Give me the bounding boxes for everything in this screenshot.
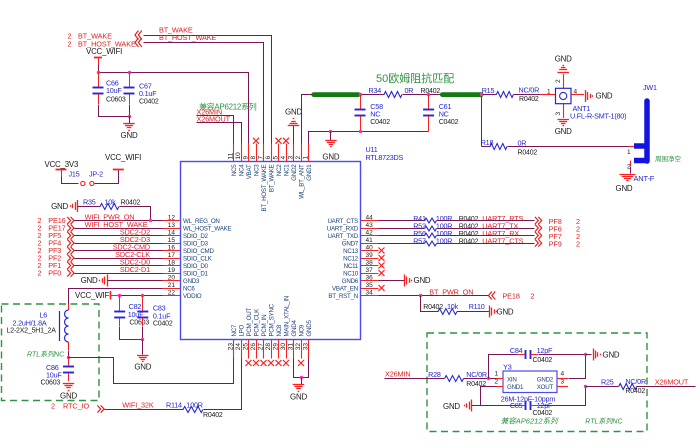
svg-text:WIFI_32K: WIFI_32K — [122, 401, 154, 410]
svg-text:4: 4 — [280, 156, 287, 160]
svg-text:UART7_CTS: UART7_CTS — [482, 237, 523, 246]
wire R25 to X26MOUT — [637, 386, 696, 388]
svg-text:GND: GND — [60, 392, 77, 401]
junction GND rail tap — [329, 130, 332, 133]
svg-text:C0402: C0402 — [153, 320, 173, 327]
pin 1 JW1 — [629, 146, 635, 148]
svg-text:C0402: C0402 — [439, 119, 459, 126]
pin 6 BT_WAKE (top) — [271, 144, 273, 162]
svg-text:PCM_OUT: PCM_OUT — [246, 308, 253, 337]
svg-text:12: 12 — [168, 214, 176, 221]
svg-text:100R: 100R — [436, 237, 452, 246]
pin 13 WL_HOST_WAKE (left) — [163, 228, 181, 230]
wire NC6 to L6 — [69, 289, 163, 305]
svg-text:30: 30 — [280, 343, 287, 351]
svg-text:R0402: R0402 — [421, 88, 441, 95]
wire X26MIN stub to pin 11 — [197, 116, 234, 144]
pin 20 GND3 (left) — [163, 280, 181, 282]
pin 22 VDDIO (left) — [163, 295, 181, 297]
svg-text:9: 9 — [242, 156, 249, 160]
ground right of R110 — [489, 306, 491, 318]
wire UART row pin 41 — [379, 243, 425, 245]
svg-text:J15: J15 — [69, 170, 80, 179]
pin 43 UART_RXD (right) — [361, 228, 379, 230]
svg-text:RTC_IO: RTC_IO — [63, 402, 89, 411]
svg-text:2: 2 — [38, 269, 42, 278]
resistor R34 0R — [384, 92, 402, 98]
svg-text:NC1: NC1 — [284, 164, 291, 176]
transmission line segment 1 (50ohm) — [314, 92, 359, 97]
ground below C86 — [63, 383, 75, 385]
svg-text:29: 29 — [272, 343, 279, 351]
pin 38 NC11 (right) — [361, 265, 379, 267]
svg-text:NC9: NC9 — [299, 324, 306, 336]
ground below ANT1 pin 3 — [557, 119, 569, 121]
svg-text:27: 27 — [257, 343, 264, 351]
svg-text:兼容AP6212系列: 兼容AP6212系列 — [501, 416, 559, 425]
capacitor C66 10uF — [98, 72, 100, 87]
capacitor C86 10uF — [68, 357, 70, 366]
wire VDDIO rail — [120, 295, 163, 297]
svg-text:6: 6 — [265, 156, 272, 160]
wire GND4/GND5 join — [294, 359, 309, 378]
wire R18 to JW1 pin 1 — [508, 146, 629, 148]
junction GND4/GND5 — [300, 376, 303, 379]
resistor R114 100R — [183, 407, 203, 413]
svg-text:MAIN_XTAL_IN: MAIN_XTAL_IN — [284, 296, 291, 337]
svg-text:GND: GND — [322, 153, 339, 162]
svg-text:1: 1 — [547, 89, 551, 96]
svg-text:R0402: R0402 — [518, 149, 538, 156]
capacitor C61 NC — [428, 95, 430, 109]
testpoint J15 — [81, 181, 85, 185]
svg-text:50欧姆阻抗匹配: 50欧姆阻抗匹配 — [376, 71, 454, 85]
wire UART row pin 42 — [379, 235, 425, 237]
svg-text:10: 10 — [235, 152, 242, 160]
svg-text:SDIO_D3: SDIO_D3 — [183, 241, 209, 248]
ground right of ANT1 pin 4 — [585, 90, 587, 102]
svg-text:13: 13 — [168, 222, 176, 229]
svg-text:R0402: R0402 — [203, 412, 223, 419]
resistor R41 100R — [425, 218, 437, 223]
svg-text:GND6: GND6 — [342, 278, 359, 285]
svg-text:GND: GND — [290, 393, 307, 402]
svg-text:34: 34 — [366, 289, 374, 296]
svg-text:JP-2: JP-2 — [89, 170, 103, 179]
pin 41 GND7 (right) — [361, 243, 379, 245]
svg-text:2.2uH/1.8A: 2.2uH/1.8A — [13, 319, 47, 328]
resistor R35 10k pulldown — [77, 200, 79, 212]
svg-text:5: 5 — [272, 156, 279, 160]
wire R28 to XIN pin 1 — [464, 378, 497, 380]
svg-text:21: 21 — [168, 282, 176, 289]
svg-text:L2-2X2_5H1_2A: L2-2X2_5H1_2A — [7, 328, 57, 335]
wire GND3 — [108, 280, 163, 282]
pin 37 NC10 (right) — [361, 273, 379, 275]
junction XOUT node — [584, 385, 587, 388]
svg-text:2: 2 — [295, 156, 302, 160]
pin 9 VBAT (top) — [248, 144, 250, 162]
svg-text:3: 3 — [561, 378, 565, 385]
svg-text:4: 4 — [574, 89, 578, 96]
svg-text:GND: GND — [414, 276, 431, 285]
ground above pin 3 GND2 — [293, 126, 295, 144]
svg-text:GND: GND — [603, 350, 620, 359]
resistor R28 NC/0R — [445, 376, 464, 382]
svg-text:24: 24 — [235, 343, 242, 351]
svg-text:R35: R35 — [83, 198, 96, 207]
svg-text:C0603: C0603 — [106, 97, 126, 104]
svg-text:R0402: R0402 — [459, 224, 479, 231]
svg-text:GND: GND — [555, 55, 572, 64]
svg-text:15: 15 — [168, 237, 176, 244]
pin 42 UART_TXD (right) — [361, 235, 379, 237]
op-amp U11 RTL8723DS body — [181, 162, 361, 340]
port PE18 (sheet 2) — [489, 292, 492, 300]
pin 17 SDIO_CLK (left) — [163, 258, 181, 260]
wire SDC2-D1 — [75, 273, 163, 275]
svg-text:UART_RXD: UART_RXD — [327, 226, 359, 233]
pin 31 GND4 (bottom) — [293, 340, 295, 359]
wire R114 to LPO pin 24 — [204, 359, 242, 410]
svg-text:4: 4 — [561, 371, 565, 378]
ground right of C84 — [586, 354, 592, 356]
ground on GND1 rail — [330, 131, 332, 140]
ground on pin 36 GND6 — [379, 280, 405, 282]
svg-text:GND1: GND1 — [507, 384, 524, 391]
svg-text:GND1: GND1 — [306, 164, 313, 181]
svg-text:2: 2 — [530, 292, 534, 301]
svg-text:VDDIO: VDDIO — [183, 293, 202, 300]
junction C58 tap — [359, 93, 362, 96]
svg-text:R25: R25 — [601, 378, 614, 387]
resistor R110 10k pulldown — [421, 296, 439, 312]
svg-text:NC/0R: NC/0R — [625, 377, 646, 386]
ground below C82/C83 — [142, 340, 144, 355]
port PF9 (sheet 2) — [535, 239, 538, 246]
wire SDC2-D2 — [75, 235, 163, 237]
capacitor C82 10uF — [119, 295, 121, 311]
svg-text:VBAT: VBAT — [246, 164, 253, 179]
svg-text:2: 2 — [68, 39, 72, 48]
svg-text:GND2: GND2 — [537, 377, 554, 384]
svg-text:NC8: NC8 — [276, 324, 283, 336]
svg-text:C0402: C0402 — [370, 119, 390, 126]
svg-text:NC7: NC7 — [231, 324, 238, 336]
wire L6 bottom node — [68, 351, 70, 358]
pin 27 PCM_IN (bottom) — [263, 340, 265, 359]
svg-text:10uF: 10uF — [106, 86, 122, 95]
svg-text:7: 7 — [257, 156, 264, 160]
svg-text:BT_HOST_WAKE: BT_HOST_WAKE — [159, 33, 216, 42]
svg-text:NC12: NC12 — [343, 256, 359, 263]
svg-text:NC/0R: NC/0R — [466, 370, 487, 379]
svg-text:23: 23 — [227, 343, 234, 351]
wire GND1 pin2 down to C85 row — [481, 387, 518, 406]
svg-text:NC4: NC4 — [239, 164, 246, 176]
pin 11 NC5 (top) — [233, 144, 235, 162]
pin 28 PCM_SYNC (bottom) — [271, 340, 273, 359]
pin 18 SDIO_D0 (left) — [163, 265, 181, 267]
wire RF line seg — [359, 94, 385, 96]
svg-text:25: 25 — [242, 343, 249, 351]
svg-text:GND: GND — [616, 184, 633, 193]
resistor R52 100R — [425, 226, 437, 231]
svg-text:VCC_3V3: VCC_3V3 — [45, 160, 79, 169]
svg-text:BT_HOST_WAKE: BT_HOST_WAKE — [261, 164, 268, 211]
svg-text:3: 3 — [555, 112, 562, 116]
pin 34 BT_RST_N (right) — [361, 295, 379, 297]
svg-text:C84: C84 — [510, 346, 523, 355]
svg-text:R0402: R0402 — [423, 304, 443, 311]
svg-text:GND3: GND3 — [183, 278, 200, 285]
svg-text:UART_CTS: UART_CTS — [327, 218, 358, 225]
pin 36 GND6 (right) — [361, 280, 379, 282]
wire BT_HOST_WAKE — [144, 43, 264, 144]
resistor R25 NC/0R — [619, 384, 637, 390]
svg-text:U.FL-R-SMT-1(80): U.FL-R-SMT-1(80) — [570, 112, 626, 121]
no-connect X marks top pins NC3 NC2 NC1 — [253, 138, 259, 144]
wire SDC2-CMD — [75, 250, 163, 252]
svg-text:PF9: PF9 — [549, 239, 562, 248]
wire BT_PWR_ON — [379, 295, 489, 297]
svg-text:10uF: 10uF — [46, 370, 62, 379]
pin 40 NC13 (right) — [361, 250, 379, 252]
svg-text:36: 36 — [366, 274, 374, 281]
svg-text:C0402: C0402 — [139, 99, 159, 106]
svg-text:GND: GND — [497, 308, 514, 317]
junction R18 riser — [480, 93, 483, 96]
svg-text:10k: 10k — [447, 302, 459, 311]
svg-text:NC3: NC3 — [254, 164, 261, 176]
pin 44 UART_CTS (right) — [361, 220, 379, 222]
junction C66 tap — [97, 71, 100, 74]
svg-text:R0402: R0402 — [519, 96, 539, 103]
svg-text:C0402: C0402 — [533, 357, 553, 364]
ground above ANT1 pin 2 — [557, 72, 569, 74]
wire WL_BT_ANT to RF line — [302, 95, 314, 144]
svg-text:R114: R114 — [166, 401, 182, 410]
svg-text:GND5: GND5 — [306, 320, 313, 337]
ground below pins 31/33 — [301, 378, 303, 385]
svg-text:NC: NC — [439, 110, 449, 119]
wire R34 to bar2 — [403, 94, 443, 96]
svg-text:VCC_WIFI: VCC_WIFI — [105, 153, 141, 162]
svg-text:41: 41 — [366, 237, 374, 244]
wire WIFI_PWR_ON — [75, 220, 163, 222]
svg-text:NC2: NC2 — [276, 164, 283, 176]
NC group box (green dashed, RTL series NC) — [2, 304, 100, 401]
compat group box (green dashed, crystal) — [427, 333, 647, 432]
svg-text:18: 18 — [168, 259, 176, 266]
svg-text:11: 11 — [227, 152, 234, 159]
connector ANT1 U.FL-R-SMT-1(80) — [541, 94, 556, 96]
ground left of C85 — [471, 400, 473, 412]
svg-text:1: 1 — [302, 156, 309, 160]
wire GND2 pin4 up to C84 row — [569, 355, 586, 379]
svg-text:42: 42 — [366, 229, 374, 236]
pin 21 NC6 (left) — [163, 288, 181, 290]
svg-text:3: 3 — [287, 156, 294, 160]
port PF6 (sheet 2) — [535, 224, 538, 231]
no-connect X marks bottom pins 25-30 and 32 — [246, 360, 252, 366]
svg-text:BT_PWR_ON: BT_PWR_ON — [429, 287, 473, 296]
pin 30 MAIN_XTAL_IN (bottom) — [286, 340, 288, 359]
wire UART7_RX to port — [437, 235, 535, 237]
svg-text:ANT-F: ANT-F — [634, 174, 655, 183]
svg-text:R0402: R0402 — [625, 388, 645, 395]
svg-text:1: 1 — [495, 371, 499, 378]
svg-text:17: 17 — [168, 252, 176, 259]
pin 16 SDIO_CMD (left) — [163, 250, 181, 252]
pin 29 NC8 (bottom) — [278, 340, 280, 359]
svg-text:PCM_CLK: PCM_CLK — [254, 308, 261, 337]
svg-text:Y3: Y3 — [503, 362, 512, 371]
pin 2 WL_BT_ANT (top) — [301, 144, 303, 162]
svg-text:100R: 100R — [186, 401, 202, 410]
svg-text:NC11: NC11 — [344, 263, 359, 270]
junction GND tap — [128, 115, 131, 118]
svg-text:R34: R34 — [369, 86, 382, 95]
inductor L6 2.2uH/1.8A — [68, 304, 70, 310]
capacitor C84 12pF — [525, 350, 527, 359]
svg-text:0R: 0R — [518, 138, 527, 147]
ground below C66/C67 — [129, 116, 131, 124]
junction C58 bottom tap — [359, 130, 362, 133]
svg-text:SDIO_D2: SDIO_D2 — [183, 233, 209, 240]
svg-text:14: 14 — [168, 229, 176, 236]
pin 12 WL_REG_ON (left) — [163, 220, 181, 222]
pin 26 PCM_CLK (bottom) — [256, 340, 258, 359]
svg-text:35: 35 — [366, 282, 374, 289]
svg-text:10k: 10k — [105, 198, 117, 207]
svg-text:GND: GND — [121, 131, 138, 140]
svg-text:WL_REG_ON: WL_REG_ON — [183, 218, 220, 225]
pin 39 NC12 (right) — [361, 258, 379, 260]
svg-text:SDIO_D0: SDIO_D0 — [183, 263, 209, 270]
junction R110 tap — [419, 294, 422, 297]
svg-text:PCM_IN: PCM_IN — [261, 315, 268, 337]
svg-text:JW1: JW1 — [643, 83, 657, 92]
svg-text:19: 19 — [168, 267, 176, 274]
testpoint JP-2 — [90, 181, 94, 185]
svg-text:R0402: R0402 — [459, 231, 479, 238]
transmission line segment 2 (50ohm) — [442, 92, 481, 97]
svg-text:0.1uF: 0.1uF — [153, 312, 171, 321]
svg-text:PCM_SYNC: PCM_SYNC — [269, 303, 276, 336]
resistor R57 100R — [425, 241, 437, 246]
svg-text:R0402: R0402 — [121, 200, 141, 207]
svg-text:8: 8 — [250, 156, 257, 160]
svg-text:NC10: NC10 — [343, 271, 359, 278]
svg-text:40: 40 — [366, 244, 374, 251]
wire VCC_3V3 to J15 — [62, 177, 79, 184]
svg-text:GND2: GND2 — [291, 164, 298, 181]
svg-text:GND4: GND4 — [291, 320, 298, 337]
wire UART row pin 44 — [379, 220, 425, 222]
svg-text:SDIO_D1: SDIO_D1 — [183, 271, 209, 278]
svg-text:28: 28 — [265, 343, 272, 351]
svg-text:NC: NC — [370, 110, 380, 119]
pin 2 JW1 — [630, 161, 632, 167]
pin 25 PCM_OUT (bottom) — [248, 340, 250, 359]
svg-text:R0402: R0402 — [459, 239, 479, 246]
svg-text:C0603: C0603 — [41, 379, 61, 386]
wire VCC_WIFI rail to VBAT pin 9 — [99, 65, 249, 144]
svg-text:0.1uF: 0.1uF — [139, 89, 157, 98]
svg-text:UART_TXD: UART_TXD — [327, 233, 358, 240]
svg-text:BT_RST_N: BT_RST_N — [328, 293, 358, 300]
pin 14 SDIO_D2 (left) — [163, 235, 181, 237]
pin 15 SDIO_D3 (left) — [163, 243, 181, 245]
svg-text:R110: R110 — [469, 302, 485, 311]
svg-text:WL_BT_ANT: WL_BT_ANT — [299, 164, 306, 199]
wire UART7_CTS to port — [437, 243, 535, 245]
junction C83 tap — [141, 294, 144, 297]
svg-text:26: 26 — [250, 343, 257, 351]
pin 10 NC4 (top) — [241, 144, 243, 162]
wire C82/C83 bottom — [120, 327, 143, 340]
svg-text:2: 2 — [576, 239, 580, 248]
wire C85 to XOUT node — [539, 387, 586, 406]
svg-text:GND: GND — [134, 363, 151, 372]
svg-text:XOUT: XOUT — [537, 384, 554, 391]
svg-text:R18: R18 — [481, 138, 494, 147]
svg-text:X26MOUT: X26MOUT — [197, 114, 231, 123]
pin 7 BT_HOST_WAKE (top) — [263, 144, 265, 162]
wire R35 to WIFI_PWR_ON — [120, 207, 151, 221]
svg-text:PE18: PE18 — [502, 292, 519, 301]
svg-text:SDIO_CLK: SDIO_CLK — [183, 256, 213, 263]
svg-text:RTL8723DS: RTL8723DS — [366, 153, 404, 162]
svg-text:GND: GND — [443, 402, 460, 411]
wire BT_WAKE — [144, 36, 272, 144]
svg-text:BT_WAKE: BT_WAKE — [269, 164, 276, 192]
pin 1 GND1 (top) — [308, 144, 310, 162]
svg-text:XIN: XIN — [507, 377, 517, 384]
svg-text:33: 33 — [302, 343, 309, 351]
wire WIFI_HOST_WAKE — [75, 228, 163, 230]
svg-text:NC13: NC13 — [343, 248, 359, 255]
svg-text:R28: R28 — [428, 370, 441, 379]
svg-text:16: 16 — [168, 244, 176, 251]
svg-text:PF0: PF0 — [48, 269, 61, 278]
wire SDC2-CLK — [75, 258, 163, 260]
wire JP-2 to VCC_WIFI — [95, 171, 119, 184]
svg-text:GND: GND — [555, 127, 572, 136]
wire X26MIN to R28 — [385, 378, 445, 380]
junction C82 tap — [118, 294, 121, 297]
svg-text:2: 2 — [555, 79, 562, 83]
junction C67 tap — [128, 71, 131, 74]
svg-text:WL_HOST_WAKE: WL_HOST_WAKE — [183, 226, 231, 233]
junction GND tap below C83 — [141, 338, 144, 341]
junction L6/C86 node — [67, 356, 70, 359]
svg-text:22: 22 — [168, 289, 176, 296]
pin 33 GND5 (bottom) — [308, 340, 310, 359]
svg-text:2: 2 — [495, 378, 499, 385]
svg-text:C85: C85 — [510, 401, 523, 410]
wire UART row pin 43 — [379, 228, 425, 230]
pin 3 GND2 (top) — [293, 144, 295, 162]
svg-text:44: 44 — [366, 214, 374, 221]
svg-text:20: 20 — [168, 274, 176, 281]
resistor R56 100R — [425, 233, 437, 238]
svg-text:RTL系列NC: RTL系列NC — [585, 417, 623, 425]
svg-text:1: 1 — [627, 149, 631, 156]
power port VCC_WIFI (J15 side) — [113, 169, 124, 171]
resistor R18 0R — [482, 146, 491, 148]
